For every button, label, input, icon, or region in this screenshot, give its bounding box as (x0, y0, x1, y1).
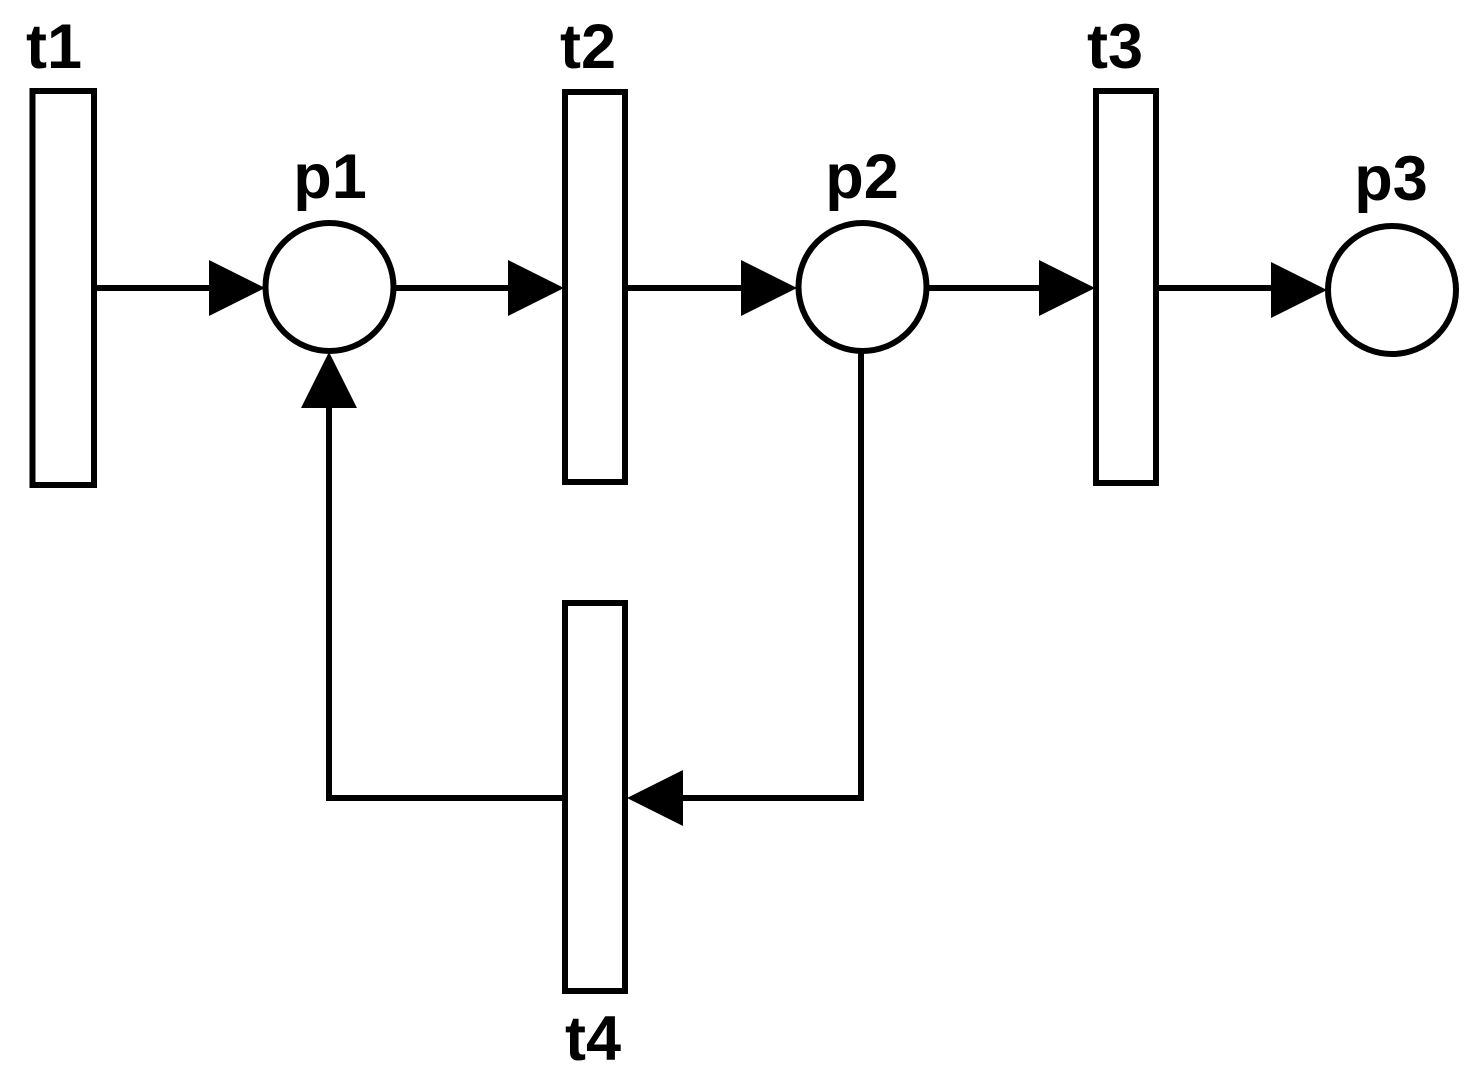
svg-text:t1: t1 (26, 12, 82, 82)
svg-text:p1: p1 (293, 142, 367, 212)
svg-text:p2: p2 (825, 142, 899, 212)
svg-text:t4: t4 (565, 1004, 621, 1074)
svg-text:p3: p3 (1354, 144, 1428, 214)
svg-text:t2: t2 (560, 12, 616, 82)
svg-text:t3: t3 (1087, 12, 1143, 82)
